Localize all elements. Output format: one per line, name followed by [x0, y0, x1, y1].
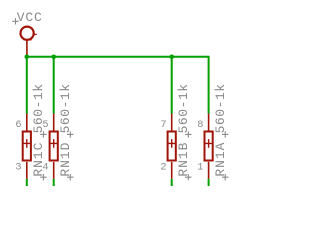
resistor RN1A origin cross: [204, 139, 213, 148]
VCC pin origin tick: [23, 39, 31, 41]
RN1D name origin cross: [67, 174, 73, 180]
resistor RN1B bottom pin: [171, 162, 173, 179]
wire: vertical drop to RN1D: [53, 57, 55, 114]
RN1A value origin cross: [222, 131, 228, 137]
svg-text:6: 6: [15, 119, 21, 131]
svg-text:RN1A: RN1A: [213, 142, 228, 176]
wire: bottom tail under RN1D: [53, 179, 55, 186]
RN1C name origin cross: [40, 174, 46, 180]
svg-text:4: 4: [42, 161, 48, 173]
RN1C value origin cross: [40, 131, 46, 137]
RN1B name origin cross: [185, 174, 191, 180]
svg-text:1: 1: [197, 161, 203, 173]
svg-text:560-1k: 560-1k: [58, 84, 73, 134]
wire: horizontal VCC bus: [27, 56, 209, 58]
wire: bottom tail under RN1C: [26, 179, 28, 186]
wire: bottom tail under RN1B: [171, 179, 173, 186]
resistor RN1B body: [168, 132, 176, 161]
svg-text:3: 3: [15, 161, 21, 173]
resistor RN1A bottom pin: [208, 162, 210, 179]
svg-text:5: 5: [42, 119, 48, 131]
svg-text:VCC: VCC: [17, 10, 42, 25]
svg-text:2: 2: [160, 161, 166, 173]
supply symbol VCC circle: [21, 27, 34, 40]
svg-text:RN1B: RN1B: [176, 142, 191, 176]
resistor RN1C origin cross: [23, 139, 32, 148]
VCC text origin cross: [12, 18, 18, 24]
svg-text:7: 7: [160, 119, 166, 131]
VCC pin stub: [26, 40, 28, 57]
wire: vertical drop to RN1A (right corner): [208, 56, 210, 114]
resistor RN1A top pin: [208, 114, 210, 132]
junction dot at node VCC/RN1D: [51, 55, 56, 60]
resistor RN1C bottom pin: [26, 162, 28, 179]
resistor RN1B origin cross: [167, 139, 176, 148]
RN1D value origin cross: [67, 131, 73, 137]
junction dot at node VCC/RN1C: [25, 55, 30, 60]
svg-text:560-1k: 560-1k: [176, 84, 191, 134]
resistor RN1D top pin: [53, 114, 55, 132]
VCC right tick: [34, 33, 37, 35]
resistor RN1A body: [205, 132, 213, 161]
resistor RN1C body: [23, 132, 31, 161]
RN1A name origin cross: [222, 174, 228, 180]
svg-text:560-1k: 560-1k: [213, 84, 228, 134]
resistor RN1C top pin: [26, 114, 28, 132]
RN1B value origin cross: [185, 131, 191, 137]
wire: vertical drop to RN1C: [26, 57, 28, 114]
svg-text:8: 8: [197, 119, 203, 131]
resistor RN1D bottom pin: [53, 162, 55, 179]
wire: bottom tail under RN1A: [208, 179, 210, 186]
resistor RN1B top pin: [171, 114, 173, 132]
junction dot at node VCC/RN1B: [169, 55, 174, 60]
wire: vertical drop to RN1B: [171, 57, 173, 114]
svg-text:RN1D: RN1D: [58, 142, 73, 176]
resistor RN1D origin cross: [49, 139, 58, 148]
resistor RN1D body: [50, 132, 58, 161]
